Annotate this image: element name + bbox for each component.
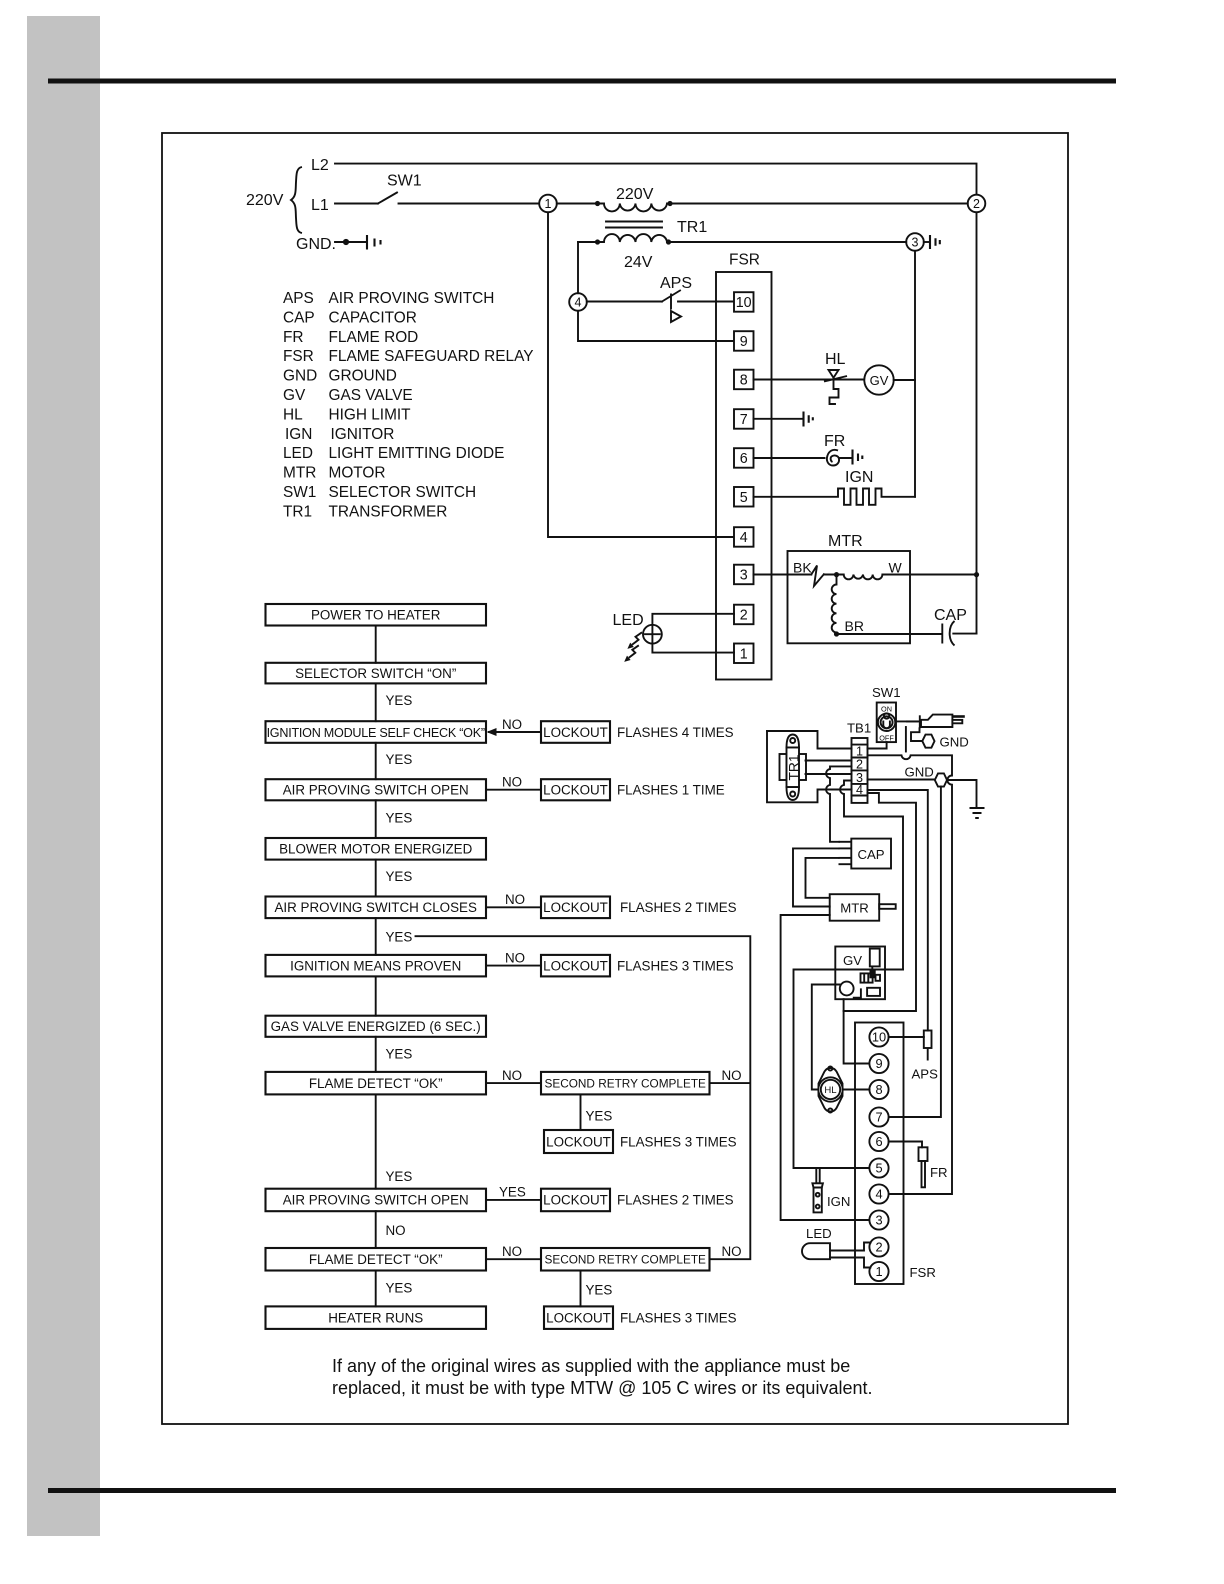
svg-text:If any of the original wires a: If any of the original wires as supplied… — [332, 1356, 850, 1376]
svg-text:7: 7 — [875, 1110, 882, 1125]
svg-text:1: 1 — [856, 745, 863, 759]
svg-text:YES: YES — [386, 930, 413, 945]
svg-text:IGNITION MODULE SELF CHECK “OK: IGNITION MODULE SELF CHECK “OK” — [267, 726, 485, 740]
svg-text:9: 9 — [740, 334, 748, 350]
svg-text:1: 1 — [740, 646, 748, 662]
svg-text:BK: BK — [793, 560, 812, 576]
svg-text:TB1: TB1 — [847, 721, 871, 736]
svg-text:LOCKOUT: LOCKOUT — [543, 1193, 608, 1208]
svg-text:6: 6 — [875, 1134, 882, 1149]
svg-text:MTR: MTR — [828, 533, 863, 550]
svg-text:BLOWER MOTOR ENERGIZED: BLOWER MOTOR ENERGIZED — [279, 842, 473, 857]
svg-text:4: 4 — [740, 530, 748, 546]
svg-text:4: 4 — [575, 296, 582, 310]
svg-text:FR: FR — [930, 1165, 948, 1180]
svg-text:FLASHES 3 TIMES: FLASHES 3 TIMES — [620, 1310, 737, 1325]
svg-text:2: 2 — [740, 608, 748, 624]
svg-text:LOCKOUT: LOCKOUT — [543, 783, 608, 798]
svg-text:TR1: TR1 — [283, 503, 312, 520]
svg-text:IGN: IGN — [285, 426, 312, 443]
svg-text:8: 8 — [875, 1082, 882, 1097]
svg-text:FLASHES 3 TIMES: FLASHES 3 TIMES — [620, 1134, 737, 1149]
svg-text:FR: FR — [824, 433, 845, 450]
svg-text:AIR PROVING SWITCH OPEN: AIR PROVING SWITCH OPEN — [283, 1193, 469, 1208]
svg-text:YES: YES — [386, 1281, 413, 1296]
svg-text:NO: NO — [505, 950, 525, 965]
svg-text:SELECTOR SWITCH: SELECTOR SWITCH — [329, 484, 477, 501]
svg-text:SELECTOR SWITCH “ON”: SELECTOR SWITCH “ON” — [295, 666, 456, 681]
svg-text:LED: LED — [806, 1226, 832, 1241]
svg-text:GAS VALVE: GAS VALVE — [329, 387, 413, 404]
svg-text:GND: GND — [283, 368, 317, 385]
svg-text:FLASHES 1 TIME: FLASHES 1 TIME — [617, 783, 725, 798]
svg-text:AIR PROVING SWITCH: AIR PROVING SWITCH — [329, 290, 495, 307]
svg-text:FSR: FSR — [729, 252, 760, 269]
svg-text:HL: HL — [283, 406, 303, 423]
svg-text:YES: YES — [499, 1185, 526, 1200]
svg-text:SW1: SW1 — [283, 484, 316, 501]
svg-text:APS: APS — [283, 290, 314, 307]
svg-text:AIR PROVING SWITCH CLOSES: AIR PROVING SWITCH CLOSES — [275, 900, 477, 915]
svg-text:9: 9 — [875, 1056, 882, 1071]
svg-text:FLASHES 4 TIMES: FLASHES 4 TIMES — [617, 725, 734, 740]
svg-text:2: 2 — [856, 758, 863, 772]
svg-text:FR: FR — [283, 329, 304, 346]
svg-text:GND: GND — [905, 765, 934, 780]
svg-text:MTR: MTR — [840, 901, 869, 916]
svg-text:3: 3 — [912, 236, 919, 250]
svg-text:AIR PROVING SWITCH OPEN: AIR PROVING SWITCH OPEN — [283, 783, 469, 798]
svg-text:L1: L1 — [311, 197, 329, 214]
svg-text:TRANSFORMER: TRANSFORMER — [329, 503, 448, 520]
svg-text:SECOND RETRY COMPLETE: SECOND RETRY COMPLETE — [544, 1253, 706, 1267]
svg-text:NO: NO — [502, 1068, 522, 1083]
svg-text:24V: 24V — [624, 254, 653, 271]
svg-text:NO: NO — [502, 717, 522, 732]
svg-text:W: W — [889, 560, 903, 576]
svg-text:FLASHES 3 TIMES: FLASHES 3 TIMES — [617, 958, 734, 973]
svg-text:5: 5 — [740, 490, 748, 506]
svg-text:LOCKOUT: LOCKOUT — [543, 725, 608, 740]
svg-text:GV: GV — [283, 387, 306, 404]
svg-text:NO: NO — [386, 1223, 406, 1238]
svg-text:LOCKOUT: LOCKOUT — [546, 1310, 611, 1325]
svg-text:HL: HL — [825, 351, 846, 368]
svg-text:IGNITOR: IGNITOR — [331, 426, 395, 443]
svg-text:LIGHT EMITTING DIODE: LIGHT EMITTING DIODE — [329, 445, 505, 462]
svg-text:220V: 220V — [616, 186, 654, 203]
svg-text:IGNITION MEANS PROVEN: IGNITION MEANS PROVEN — [290, 958, 461, 973]
svg-text:NO: NO — [505, 892, 525, 907]
svg-text:YES: YES — [386, 869, 413, 884]
svg-text:YES: YES — [386, 752, 413, 767]
svg-text:2: 2 — [973, 197, 980, 211]
svg-text:ON: ON — [881, 705, 892, 714]
svg-text:APS: APS — [912, 1067, 939, 1082]
svg-text:LOCKOUT: LOCKOUT — [546, 1134, 611, 1149]
svg-text:YES: YES — [386, 693, 413, 708]
svg-text:L2: L2 — [311, 157, 329, 174]
svg-text:NO: NO — [502, 1244, 522, 1259]
svg-text:1: 1 — [875, 1264, 882, 1279]
svg-text:TR1: TR1 — [787, 754, 802, 780]
svg-text:4: 4 — [856, 783, 863, 797]
svg-text:8: 8 — [740, 373, 748, 389]
svg-text:FSR: FSR — [283, 348, 314, 365]
svg-text:7: 7 — [740, 412, 748, 428]
svg-text:FLAME ROD: FLAME ROD — [329, 329, 419, 346]
svg-text:CAP: CAP — [283, 309, 315, 326]
svg-text:FLASHES 2 TIMES: FLASHES 2 TIMES — [617, 1193, 734, 1208]
svg-text:NO: NO — [502, 775, 522, 790]
svg-text:GND: GND — [940, 734, 969, 749]
svg-text:6: 6 — [740, 451, 748, 467]
svg-text:YES: YES — [386, 811, 413, 826]
svg-text:FSR: FSR — [910, 1265, 936, 1280]
svg-text:CAPACITOR: CAPACITOR — [329, 309, 417, 326]
svg-text:LOCKOUT: LOCKOUT — [543, 958, 608, 973]
svg-text:NO: NO — [722, 1244, 742, 1259]
svg-text:SECOND RETRY COMPLETE: SECOND RETRY COMPLETE — [544, 1077, 706, 1091]
svg-text:10: 10 — [872, 1030, 886, 1045]
svg-text:TR1: TR1 — [677, 219, 707, 236]
svg-text:220V: 220V — [246, 192, 284, 209]
svg-text:CAP: CAP — [934, 607, 967, 624]
svg-text:YES: YES — [386, 1047, 413, 1062]
svg-text:3: 3 — [875, 1213, 882, 1228]
svg-text:SW1: SW1 — [387, 173, 422, 190]
svg-text:GAS VALVE ENERGIZED (6 SEC.): GAS VALVE ENERGIZED (6 SEC.) — [271, 1019, 481, 1034]
svg-text:4: 4 — [875, 1187, 882, 1202]
svg-text:10: 10 — [736, 295, 752, 311]
svg-text:YES: YES — [386, 1169, 413, 1184]
svg-text:GV: GV — [870, 373, 889, 388]
svg-text:YES: YES — [586, 1283, 613, 1298]
svg-text:FLAME DETECT “OK”: FLAME DETECT “OK” — [309, 1252, 443, 1267]
svg-text:FLASHES 2 TIMES: FLASHES 2 TIMES — [620, 900, 737, 915]
svg-text:5: 5 — [875, 1161, 882, 1176]
svg-text:2: 2 — [875, 1240, 882, 1255]
svg-text:FLAME DETECT “OK”: FLAME DETECT “OK” — [309, 1076, 443, 1091]
svg-text:HL: HL — [824, 1085, 836, 1096]
svg-text:3: 3 — [740, 568, 748, 584]
svg-text:1: 1 — [545, 197, 552, 211]
svg-text:CAP: CAP — [857, 847, 884, 862]
svg-text:MOTOR: MOTOR — [329, 465, 386, 482]
svg-text:HEATER RUNS: HEATER RUNS — [328, 1310, 423, 1325]
svg-text:LED: LED — [283, 445, 313, 462]
svg-text:FLAME SAFEGUARD RELAY: FLAME SAFEGUARD RELAY — [329, 348, 534, 365]
svg-text:APS: APS — [660, 275, 692, 292]
svg-text:POWER TO HEATER: POWER TO HEATER — [311, 608, 441, 623]
svg-text:GND.: GND. — [296, 236, 336, 253]
svg-text:SW1: SW1 — [872, 685, 901, 700]
svg-text:replaced, it must be with type: replaced, it must be with type MTW @ 105… — [332, 1378, 872, 1398]
svg-text:GROUND: GROUND — [329, 368, 397, 385]
svg-text:YES: YES — [586, 1109, 613, 1124]
svg-text:BR: BR — [845, 618, 864, 634]
svg-text:MTR: MTR — [283, 465, 316, 482]
svg-text:IGN: IGN — [827, 1194, 850, 1209]
svg-text:LOCKOUT: LOCKOUT — [543, 900, 608, 915]
svg-text:GV: GV — [843, 953, 862, 968]
svg-text:LED: LED — [613, 612, 644, 629]
svg-text:IGN: IGN — [845, 469, 873, 486]
svg-text:HIGH LIMIT: HIGH LIMIT — [329, 406, 412, 423]
svg-text:NO: NO — [722, 1068, 742, 1083]
